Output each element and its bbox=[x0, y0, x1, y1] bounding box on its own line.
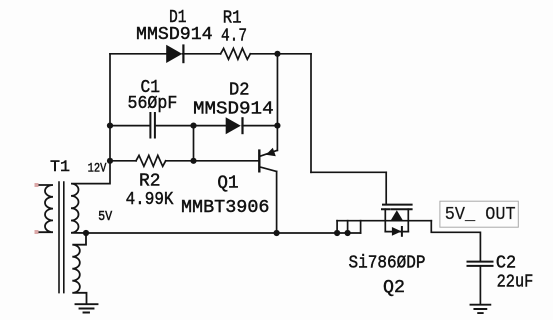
junction: R2 row mid bbox=[190, 158, 196, 164]
wire left vertical bus bbox=[109, 54, 111, 184]
mosfet Q2 right terminal bbox=[407, 209, 409, 231]
transformer primary terminal bottom bbox=[35, 230, 39, 234]
wire R2 row left bbox=[110, 160, 136, 162]
wire output step bbox=[431, 221, 480, 261]
wire top rail middle segment bbox=[183, 53, 221, 55]
wire right drop from top rail bbox=[310, 54, 312, 173]
svg-text:4.7: 4.7 bbox=[221, 27, 247, 47]
svg-text:MMSD914: MMSD914 bbox=[136, 25, 213, 45]
junction: top rail / emitter branch bbox=[274, 51, 280, 57]
svg-text:4.99K: 4.99K bbox=[126, 190, 174, 210]
mosfet Q2 gate plate bbox=[383, 204, 412, 206]
transistor Q1 emitter arrow bbox=[266, 148, 276, 157]
junction: pin stub 2 bbox=[345, 230, 351, 236]
svg-text:MMBT3906: MMBT3906 bbox=[181, 198, 270, 218]
ground (C2) bbox=[471, 305, 491, 313]
transformer primary terminal top bbox=[35, 183, 39, 187]
junction: D2 cathode / emitter bbox=[274, 123, 280, 129]
wire mosfet pin stub 1 bbox=[336, 221, 338, 233]
svg-text:12V: 12V bbox=[88, 160, 107, 175]
junction: transformer center tap bbox=[83, 230, 89, 236]
wire mosfet source rail bbox=[337, 220, 431, 222]
junction: pin stub 1 bbox=[334, 230, 340, 236]
capacitor C2 plates bbox=[468, 262, 493, 266]
junction: R2 row left bbox=[107, 158, 113, 164]
junction: collector on 5V rail bbox=[274, 230, 280, 236]
transistor Q1 base bar bbox=[258, 151, 260, 172]
ground (transformer) bbox=[76, 304, 98, 312]
wire C1 row left bbox=[110, 125, 149, 127]
svg-text:R2: R2 bbox=[139, 171, 161, 191]
transistor Q1 collector diagonal bbox=[260, 167, 277, 172]
wire top rail left segment bbox=[110, 53, 166, 55]
svg-text:C2: C2 bbox=[496, 254, 516, 274]
node 5V_OUT box bbox=[440, 201, 518, 227]
svg-text:22uF: 22uF bbox=[497, 273, 534, 293]
diode D2 bbox=[226, 117, 241, 134]
capacitor C1 plates bbox=[150, 113, 155, 138]
diode D1 bbox=[166, 45, 182, 63]
wire top rail to D2 junction vertical bbox=[276, 54, 278, 126]
resistor R1 bbox=[221, 48, 251, 59]
wire bottom 5V rail bbox=[86, 232, 361, 234]
mosfet Q2 channel segments bbox=[382, 208, 412, 210]
wire top rail right segment bbox=[250, 53, 311, 55]
transformer T1 secondary upper winding bbox=[71, 184, 110, 233]
transformer core bbox=[59, 182, 64, 293]
svg-text:5V: 5V bbox=[98, 209, 113, 225]
wire mosfet pin stub 2 bbox=[347, 221, 349, 233]
wire gate lead bbox=[385, 172, 387, 204]
resistor R2 bbox=[136, 155, 166, 166]
svg-text:56ØpF: 56ØpF bbox=[128, 94, 178, 114]
mosfet Q2 left terminal bbox=[384, 209, 386, 231]
wire C1 row right bbox=[242, 125, 277, 127]
svg-text:5V_ OUT: 5V_ OUT bbox=[445, 205, 516, 225]
wire mosfet pin stub 3 bbox=[360, 221, 362, 233]
svg-text:Q2: Q2 bbox=[383, 278, 405, 298]
wire Q1 emitter lead bbox=[276, 126, 278, 151]
junction: C1/D2 mid bbox=[190, 123, 196, 129]
wire R2 row right to Q1 base bbox=[166, 160, 260, 162]
transistor Q1 emitter diagonal bbox=[260, 150, 277, 156]
wire vertical C1-row to R2-row bbox=[193, 126, 195, 161]
svg-text:T1: T1 bbox=[50, 158, 70, 176]
wire Q1 collector drop bbox=[276, 172, 278, 234]
wire horizontal to gate bbox=[311, 171, 386, 173]
svg-text:Q1: Q1 bbox=[217, 174, 238, 194]
mosfet Q2 body diode bar bbox=[401, 227, 403, 236]
junction: C1 row left bbox=[107, 123, 113, 129]
mosfet Q2 arrow bbox=[391, 210, 403, 220]
wire C1 row middle bbox=[156, 125, 226, 127]
wire C2 lower lead bbox=[479, 267, 481, 305]
svg-text:D2: D2 bbox=[229, 80, 250, 100]
transformer T1 secondary lower winding bbox=[72, 233, 86, 304]
mosfet Q2 body diode loop bbox=[385, 231, 408, 233]
svg-text:MMSD914: MMSD914 bbox=[193, 99, 274, 119]
mosfet Q2 body diode triangle bbox=[392, 227, 402, 236]
svg-text:Si786ØDP: Si786ØDP bbox=[349, 254, 426, 274]
transformer T1 primary winding bbox=[37, 185, 53, 232]
